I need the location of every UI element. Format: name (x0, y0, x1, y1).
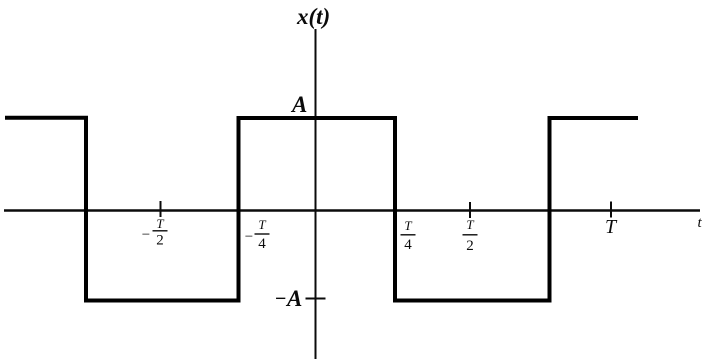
svg-text:4: 4 (404, 237, 412, 253)
svg-text:2: 2 (156, 233, 164, 249)
svg-text:−: − (275, 288, 286, 310)
svg-text:A: A (285, 286, 302, 311)
svg-text:T: T (466, 217, 474, 232)
svg-text:−: − (142, 227, 150, 243)
svg-text:−: − (245, 229, 253, 245)
svg-text:T: T (258, 217, 266, 232)
svg-text:A: A (290, 92, 307, 117)
svg-text:T: T (156, 216, 164, 231)
svg-text:x(t): x(t) (296, 4, 330, 29)
svg-text:4: 4 (258, 236, 266, 252)
svg-text:2: 2 (466, 238, 474, 254)
svg-text:T: T (605, 216, 618, 238)
svg-text:T: T (404, 218, 412, 233)
